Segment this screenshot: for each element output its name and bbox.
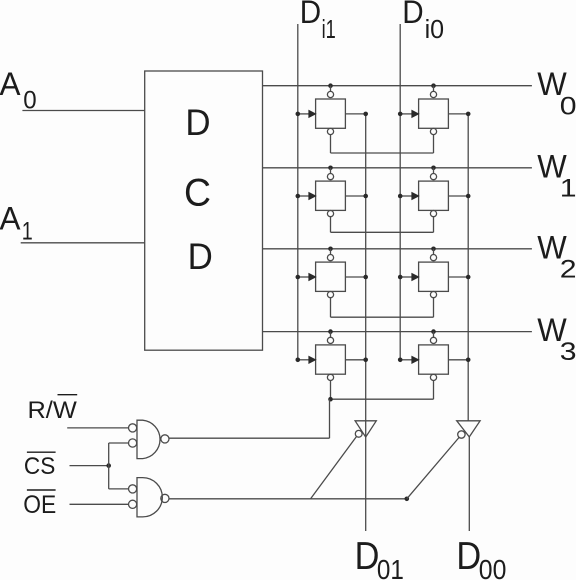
svg-text:C: C <box>184 171 211 214</box>
svg-text:0: 0 <box>560 92 576 120</box>
svg-text:1: 1 <box>560 174 576 202</box>
svg-text:CS: CS <box>24 453 55 480</box>
svg-text:i1: i1 <box>322 16 336 44</box>
svg-text:D: D <box>355 535 380 578</box>
svg-text:00: 00 <box>479 554 507 580</box>
svg-text:i0: i0 <box>425 16 445 44</box>
svg-text:A: A <box>0 66 21 102</box>
svg-text:D: D <box>402 0 423 30</box>
svg-text:0: 0 <box>23 87 36 115</box>
svg-text:1: 1 <box>22 218 33 246</box>
svg-text:R/W: R/W <box>28 398 78 424</box>
svg-text:A: A <box>0 201 21 237</box>
svg-text:D: D <box>456 535 481 578</box>
svg-text:D: D <box>185 101 210 143</box>
svg-text:D: D <box>300 0 321 30</box>
svg-text:3: 3 <box>560 338 576 366</box>
svg-text:D: D <box>188 235 213 277</box>
svg-text:01: 01 <box>377 554 404 580</box>
svg-text:2: 2 <box>560 255 576 283</box>
svg-text:OE: OE <box>23 492 56 519</box>
